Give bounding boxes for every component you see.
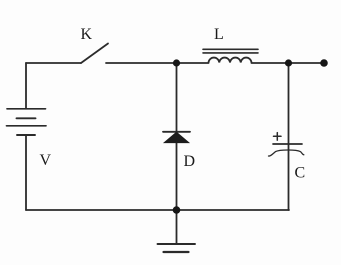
svg-text:C: C [295,165,306,182]
svg-text:D: D [184,153,196,170]
svg-text:V: V [40,152,52,169]
svg-text:K: K [81,26,93,43]
svg-text:L: L [214,26,224,43]
